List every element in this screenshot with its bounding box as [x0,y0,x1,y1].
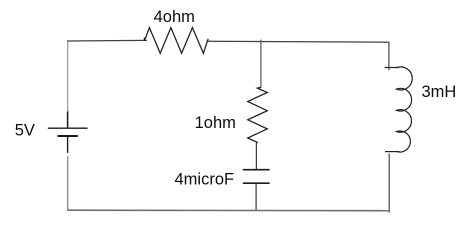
svg-text:4microF: 4microF [175,170,235,188]
inductor 3mH (four arcs with end ticks) [385,67,413,152]
wire: middle branch lower (capacitor to bottom rail) [255,183,257,210]
svg-text:4ohm: 4ohm [154,8,195,26]
svg-text:5V: 5V [15,121,35,139]
wire: top rail right segment (4ohm to top-right corner) [206,41,388,42]
svg-text:3mH: 3mH [422,83,457,101]
wire: left rail lower segment (battery to bottom-left corner) [67,156,69,210]
capacitor 4microF (two plates) [243,170,270,184]
resistor 1ohm (vertical zigzag) [248,87,268,143]
wire: middle branch upper (top rail junction to 1ohm) [260,40,262,88]
wire: middle branch (1ohm to 4microF capacitor) [255,143,257,170]
voltage source 5V (battery symbol) [48,112,88,153]
wire: bottom rail [67,209,390,212]
wire: right rail lower (inductor to bottom-right corner) [388,154,390,213]
wire: right rail upper (top-right corner to inductor) [388,42,390,71]
wire: left rail upper segment (top-left corner to battery) [67,41,69,113]
wire: top rail left segment (top-left corner to 4ohm) [67,39,147,42]
resistor 4ohm (horizontal zigzag) [144,28,208,54]
svg-text:1ohm: 1ohm [195,114,236,132]
